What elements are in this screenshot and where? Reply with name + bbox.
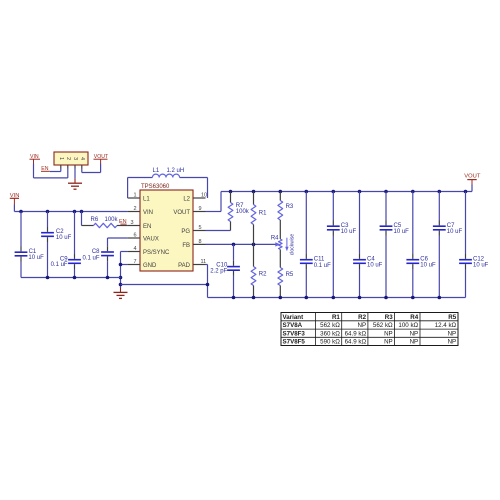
svg-text:S7V8A: S7V8A xyxy=(283,322,303,329)
svg-text:2: 2 xyxy=(65,157,71,160)
svg-text:L2: L2 xyxy=(183,197,190,203)
net label VIN (connector) xyxy=(30,154,41,160)
wire bottom ground bus xyxy=(208,297,466,299)
svg-text:VOUT: VOUT xyxy=(464,173,481,179)
power flag VOUT xyxy=(464,173,481,191)
svg-text:1: 1 xyxy=(58,157,64,160)
connector JP1 xyxy=(54,152,88,165)
svg-text:PAD: PAD xyxy=(178,263,191,269)
svg-text:10 uF: 10 uF xyxy=(473,263,489,269)
capacitor C12 xyxy=(459,192,489,298)
svg-text:10 uF: 10 uF xyxy=(56,235,72,241)
svg-text:3: 3 xyxy=(130,220,133,226)
svg-text:L1: L1 xyxy=(143,197,150,203)
svg-text:R1: R1 xyxy=(259,211,267,217)
svg-text:590 kΩ: 590 kΩ xyxy=(320,339,340,346)
svg-text:562 kΩ: 562 kΩ xyxy=(320,322,340,329)
wire PAD to ground bus xyxy=(206,265,208,298)
svg-text:R4: R4 xyxy=(410,314,418,321)
svg-text:R5: R5 xyxy=(286,272,294,278)
svg-text:1: 1 xyxy=(133,192,136,198)
svg-text:0.1 uF: 0.1 uF xyxy=(82,256,99,262)
svg-text:R5: R5 xyxy=(448,314,456,321)
variant table xyxy=(281,313,458,346)
capacitor C9 xyxy=(51,212,81,278)
svg-text:0.1 uF: 0.1 uF xyxy=(51,262,68,268)
svg-text:5: 5 xyxy=(199,225,202,231)
wire VIN to connector pin 2 xyxy=(34,159,68,178)
node bottom-left junctions xyxy=(46,276,110,280)
node VIN junctions xyxy=(19,210,83,214)
svg-text:64.9 kΩ: 64.9 kΩ xyxy=(345,330,367,337)
svg-text:6: 6 xyxy=(133,232,136,238)
wire VOUT to connector pin 4 xyxy=(82,159,101,172)
svg-text:C10: C10 xyxy=(216,262,228,268)
resistor R2 xyxy=(251,244,267,297)
svg-text:NP: NP xyxy=(410,339,419,346)
net label VOUT (connector) xyxy=(94,154,110,160)
svg-text:11: 11 xyxy=(201,259,207,265)
svg-text:EN: EN xyxy=(143,224,151,230)
svg-text:R3: R3 xyxy=(385,314,393,321)
capacitor C7 xyxy=(433,192,463,298)
svg-text:12.4 kΩ: 12.4 kΩ xyxy=(435,322,457,329)
node VOUT rail junctions xyxy=(229,190,468,194)
wire GND pin xyxy=(121,264,128,266)
capacitor C4 xyxy=(353,192,383,298)
svg-text:R2: R2 xyxy=(358,314,366,321)
capacitor C6 xyxy=(406,192,436,298)
resistor R5 xyxy=(278,250,294,298)
capacitor C5 xyxy=(380,192,410,298)
wire VIN bus xyxy=(14,205,127,212)
svg-text:Variant: Variant xyxy=(283,314,304,321)
power flag VIN xyxy=(10,193,20,205)
svg-text:S7V8F3: S7V8F3 xyxy=(283,330,306,337)
svg-text:4: 4 xyxy=(133,246,136,252)
svg-text:NP: NP xyxy=(357,322,366,329)
U1 pin stubs left xyxy=(128,198,140,265)
svg-text:R6: R6 xyxy=(91,217,99,223)
ground (connector) xyxy=(68,178,82,189)
svg-text:NP: NP xyxy=(384,330,393,337)
svg-text:C3: C3 xyxy=(341,223,349,229)
svg-text:NP: NP xyxy=(384,339,393,346)
svg-text:64.9 kΩ: 64.9 kΩ xyxy=(345,339,367,346)
svg-text:0.1 uF: 0.1 uF xyxy=(314,263,331,269)
svg-text:2.2 pF: 2.2 pF xyxy=(210,268,227,274)
capacitor C2 xyxy=(41,212,71,278)
svg-text:FB: FB xyxy=(182,243,190,249)
svg-text:562 kΩ: 562 kΩ xyxy=(373,322,393,329)
wire FB xyxy=(206,243,276,245)
connector pin stubs xyxy=(61,165,82,169)
node FB junctions xyxy=(232,243,256,247)
svg-text:100k: 100k xyxy=(236,209,250,215)
wire PG xyxy=(206,230,231,232)
svg-text:9: 9 xyxy=(199,206,202,212)
svg-text:R2: R2 xyxy=(259,271,267,277)
svg-text:clockwise: clockwise xyxy=(290,234,296,256)
wire VOUT pin 9 to rail xyxy=(206,192,222,212)
op-amp U1 TPS63060 body xyxy=(140,184,193,271)
wire VOUT rail xyxy=(221,191,472,193)
svg-text:C8: C8 xyxy=(92,249,100,255)
resistor R6 xyxy=(82,212,128,228)
U1 pin stubs right xyxy=(193,198,206,265)
wire bottom-left ground bus xyxy=(21,277,121,279)
svg-text:3: 3 xyxy=(72,157,78,160)
svg-text:NP: NP xyxy=(448,330,457,337)
svg-text:PS/SYNC: PS/SYNC xyxy=(143,250,170,256)
node bottom bus junctions xyxy=(232,296,441,300)
node PAD junction xyxy=(206,283,210,287)
svg-text:1.2 uH: 1.2 uH xyxy=(167,168,185,174)
svg-text:NP: NP xyxy=(410,330,419,337)
svg-text:10 uF: 10 uF xyxy=(367,263,383,269)
svg-text:VAUX: VAUX xyxy=(143,237,159,243)
svg-text:GND: GND xyxy=(143,263,157,269)
svg-text:L1: L1 xyxy=(153,168,160,174)
U1 pin numbers right xyxy=(199,192,208,265)
svg-text:C11: C11 xyxy=(314,257,325,263)
svg-text:C6: C6 xyxy=(420,257,428,263)
potentiometer R4 xyxy=(271,234,296,256)
resistor R1 xyxy=(251,192,267,245)
svg-text:C5: C5 xyxy=(394,223,402,229)
svg-text:2: 2 xyxy=(133,206,136,212)
wire ground spur to PAD xyxy=(121,284,208,286)
U1 pin names left xyxy=(143,197,170,270)
svg-text:VIN: VIN xyxy=(143,210,153,216)
svg-text:NP: NP xyxy=(448,339,457,346)
svg-text:C2: C2 xyxy=(56,229,64,235)
svg-text:360 kΩ: 360 kΩ xyxy=(320,330,340,337)
svg-text:R3: R3 xyxy=(286,204,294,210)
resistor R7 xyxy=(228,192,250,231)
svg-text:PG: PG xyxy=(181,229,190,235)
capacitor C1 xyxy=(15,212,44,278)
svg-text:10 uF: 10 uF xyxy=(394,229,410,235)
svg-text:8: 8 xyxy=(199,239,202,245)
svg-text:R4: R4 xyxy=(271,235,279,241)
wire PS/SYNC to ground rail xyxy=(121,252,128,289)
resistor R3 xyxy=(278,192,294,240)
svg-text:VOUT: VOUT xyxy=(173,210,190,216)
svg-text:C7: C7 xyxy=(447,223,455,229)
U1 pin names right xyxy=(173,197,190,270)
svg-text:10 uF: 10 uF xyxy=(28,255,44,261)
svg-text:7: 7 xyxy=(133,259,136,265)
capacitor C10 xyxy=(210,244,240,297)
capacitor C11 xyxy=(300,192,331,298)
svg-text:S7V8F5: S7V8F5 xyxy=(283,339,306,346)
svg-text:R1: R1 xyxy=(332,314,340,321)
svg-text:C12: C12 xyxy=(473,257,485,263)
svg-text:100 kΩ: 100 kΩ xyxy=(398,322,418,329)
svg-text:C4: C4 xyxy=(367,257,375,263)
svg-text:10 uF: 10 uF xyxy=(420,263,436,269)
svg-text:10 uF: 10 uF xyxy=(341,229,357,235)
svg-text:10: 10 xyxy=(201,192,207,198)
node GND junctions xyxy=(119,263,123,287)
capacitor C8 xyxy=(82,238,127,278)
svg-text:TPS63060: TPS63060 xyxy=(141,184,170,190)
U1 pin numbers left xyxy=(130,192,136,265)
svg-text:100k: 100k xyxy=(105,217,119,223)
wire EN to connector pin 1 xyxy=(50,169,61,172)
inductor L1 xyxy=(128,168,208,198)
ground (main) xyxy=(114,288,128,299)
svg-text:10 uF: 10 uF xyxy=(447,229,463,235)
net label EN (connector) xyxy=(41,166,50,172)
wire connector pin 3 to ground xyxy=(74,169,76,179)
svg-text:4: 4 xyxy=(79,157,85,160)
capacitor C3 xyxy=(327,192,357,298)
